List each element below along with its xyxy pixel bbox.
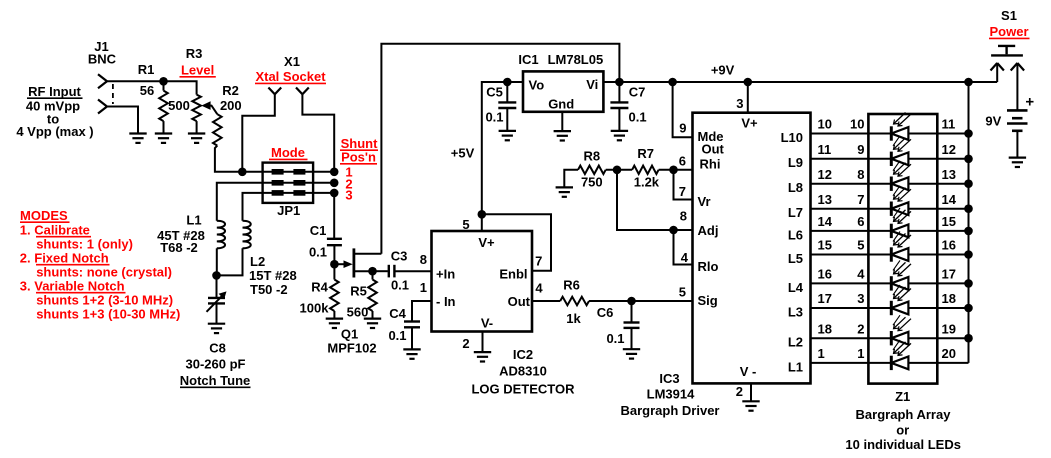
svg-text:C5: C5 <box>486 85 503 100</box>
svg-text:11: 11 <box>942 117 956 132</box>
svg-text:56: 56 <box>140 83 154 98</box>
connector J1 BNC <box>98 74 107 81</box>
node D junction <box>330 260 339 269</box>
svg-text:13: 13 <box>942 167 956 182</box>
ground R4 <box>326 318 343 320</box>
svg-text:10 individual LEDs: 10 individual LEDs <box>845 437 961 452</box>
svg-text:Power: Power <box>989 24 1028 39</box>
svg-text:Vi: Vi <box>586 77 598 92</box>
capacitor C7 0.1 <box>618 82 620 102</box>
svg-text:L5: L5 <box>788 251 803 266</box>
svg-text:shunts: 1 (only): shunts: 1 (only) <box>36 237 133 252</box>
capacitor C6 0.1 <box>631 301 633 323</box>
svg-text:V-: V- <box>481 316 493 331</box>
svg-text:V+: V+ <box>478 235 495 250</box>
svg-text:10: 10 <box>818 117 832 132</box>
svg-text:2. Fixed Notch: 2. Fixed Notch <box>20 251 109 266</box>
svg-text:0.1: 0.1 <box>391 278 409 293</box>
svg-text:2: 2 <box>736 384 743 399</box>
wire JP1 row2 to L1 <box>217 183 334 221</box>
node A junction <box>159 77 168 86</box>
svg-text:4 Vpp (max ): 4 Vpp (max ) <box>16 124 93 139</box>
capacitor C1 0.1 <box>333 193 335 239</box>
svg-text:C8: C8 <box>209 341 226 356</box>
ground J1 shield <box>129 132 146 134</box>
svg-text:7: 7 <box>857 192 864 207</box>
svg-text:R5: R5 <box>350 284 367 299</box>
svg-text:18: 18 <box>818 321 832 336</box>
ground R5 <box>364 318 381 320</box>
LED D4 <box>890 202 893 216</box>
svg-text:BNC: BNC <box>88 52 117 67</box>
svg-text:shunts 1+2 (3-10 MHz): shunts 1+2 (3-10 MHz) <box>36 293 173 308</box>
svg-text:L3: L3 <box>788 304 803 319</box>
ground IC1 <box>554 130 571 132</box>
svg-text:R3: R3 <box>186 46 203 61</box>
svg-text:IC2: IC2 <box>513 347 533 362</box>
svg-text:500: 500 <box>168 98 190 113</box>
svg-text:7: 7 <box>535 254 542 269</box>
wire node A to R3 top <box>164 81 197 94</box>
svg-text:Rlo: Rlo <box>698 259 719 274</box>
svg-text:T50 -2: T50 -2 <box>250 282 288 297</box>
svg-text:18: 18 <box>942 291 956 306</box>
ground IC3 <box>742 400 759 402</box>
crystal socket X1 <box>268 88 274 95</box>
LED row 5 pins 14/6/15 <box>811 230 869 232</box>
svg-text:15T #28: 15T #28 <box>249 268 297 283</box>
wire X1 right pin to shunt rail <box>302 94 334 172</box>
wire Q1 drain up and across to IC1 Vi <box>381 44 619 254</box>
connector JP1 <box>263 163 314 203</box>
svg-text:1: 1 <box>818 346 825 361</box>
wire R7 to pin 6 Rhi <box>659 169 693 171</box>
+5V node and wiring <box>482 82 508 214</box>
node B junction <box>238 168 247 177</box>
svg-text:16: 16 <box>942 238 956 253</box>
svg-text:12: 12 <box>818 167 832 182</box>
svg-text:17: 17 <box>818 291 832 306</box>
wire pin 3 V+ <box>747 82 749 113</box>
svg-text:- In: - In <box>436 294 456 309</box>
LED row 7 pins 16/4/17 <box>811 282 869 284</box>
variable capacitor C8 30-260 pF <box>216 275 218 298</box>
svg-text:4: 4 <box>681 250 689 265</box>
svg-text:MODES: MODES <box>20 208 68 223</box>
wire IC2 Out <box>532 300 560 302</box>
svg-text:Vo: Vo <box>529 78 545 93</box>
svg-text:L7: L7 <box>788 205 803 220</box>
svg-text:16: 16 <box>818 267 832 282</box>
svg-text:Z1: Z1 <box>895 389 910 404</box>
ground IC2 <box>474 351 491 353</box>
svg-text:R7: R7 <box>637 146 654 161</box>
svg-text:0.1: 0.1 <box>606 331 624 346</box>
svg-text:L1: L1 <box>788 359 803 374</box>
ground R8 <box>556 186 573 188</box>
anode rail from +9V <box>968 82 970 363</box>
wire node F to pin 8 Adj <box>617 170 693 230</box>
svg-text:RF Input: RF Input <box>28 84 81 99</box>
svg-text:shunts: none (crystal): shunts: none (crystal) <box>36 265 172 280</box>
wire V+ to Enbl pin 7 <box>482 214 551 270</box>
resistor R4 100k <box>333 264 335 279</box>
LED D10 <box>890 356 893 370</box>
svg-text:4: 4 <box>535 281 543 296</box>
svg-text:+: + <box>1025 94 1034 111</box>
ground C5 <box>499 130 516 132</box>
svg-text:10: 10 <box>850 117 864 132</box>
potentiometer R3 500 Level <box>192 95 201 122</box>
svg-text:R2: R2 <box>222 83 239 98</box>
capacitor C4 0.1 <box>412 301 432 322</box>
svg-text:V+: V+ <box>741 116 758 131</box>
svg-text:Xtal Socket: Xtal Socket <box>255 69 326 84</box>
switch S1 Power pushbutton <box>998 45 1015 47</box>
svg-text:12: 12 <box>942 142 956 157</box>
svg-text:L4: L4 <box>788 280 804 295</box>
svg-text:100k: 100k <box>300 301 330 316</box>
ground R3 <box>188 132 205 134</box>
svg-text:+5V: +5V <box>451 146 475 161</box>
battery 9V <box>1007 109 1028 112</box>
svg-text:AD8310: AD8310 <box>499 364 547 379</box>
wire pin 4 Rlo <box>674 230 693 265</box>
svg-text:C1: C1 <box>310 223 327 238</box>
svg-text:L9: L9 <box>788 155 803 170</box>
svg-text:Mode: Mode <box>271 145 305 160</box>
svg-text:LM3914: LM3914 <box>647 387 695 402</box>
svg-text:R8: R8 <box>583 149 600 164</box>
svg-text:0.1: 0.1 <box>388 328 406 343</box>
inductor L2 15T #28 T50-2 <box>243 221 251 249</box>
IC2 pin 2 ground <box>482 332 484 352</box>
op-amp IC2 AD8310 log detector <box>432 231 533 332</box>
svg-text:X1: X1 <box>284 54 300 69</box>
svg-text:LOG DETECTOR: LOG DETECTOR <box>471 382 575 397</box>
svg-text:Gnd: Gnd <box>548 97 574 112</box>
resistor R7 1.2k <box>632 166 659 174</box>
svg-text:5: 5 <box>857 238 864 253</box>
wire IC1 Vi to C7 node <box>603 81 619 83</box>
svg-text:T68 -2: T68 -2 <box>160 240 198 255</box>
svg-text:1.2k: 1.2k <box>634 175 660 190</box>
ground battery <box>1009 157 1026 159</box>
svg-text:Enbl: Enbl <box>499 267 527 282</box>
svg-text:+9V: +9V <box>711 63 735 78</box>
svg-text:Out: Out <box>508 294 531 309</box>
svg-text:L10: L10 <box>781 130 803 145</box>
node C junction <box>212 271 221 280</box>
ground C4 <box>403 348 420 350</box>
svg-text:Pos'n: Pos'n <box>341 150 376 165</box>
resistor R6 1k <box>560 297 589 305</box>
svg-text:1k: 1k <box>566 311 581 326</box>
svg-text:R6: R6 <box>563 278 580 293</box>
svg-text:Bargraph Array: Bargraph Array <box>856 407 952 422</box>
wire R6 to pin 5 Sig <box>589 300 693 302</box>
svg-text:2: 2 <box>857 321 864 336</box>
svg-text:3: 3 <box>857 291 864 306</box>
capacitor C5 0.1 <box>506 82 508 102</box>
LED row 2 pins 11/9/12 <box>811 158 869 160</box>
LED row 1 pins 10/10/11 <box>811 133 869 135</box>
svg-text:9: 9 <box>857 142 864 157</box>
LED D7 <box>890 276 893 290</box>
svg-text:LM78L05: LM78L05 <box>548 52 604 67</box>
svg-text:C4: C4 <box>389 306 406 321</box>
LED D1 <box>890 126 893 140</box>
LED D8 <box>890 301 893 315</box>
svg-text:0.1: 0.1 <box>485 110 503 125</box>
svg-text:3: 3 <box>736 96 743 111</box>
resistor R1 56 <box>163 81 165 90</box>
svg-text:MPF102: MPF102 <box>327 341 376 356</box>
svg-text:3. Variable Notch: 3. Variable Notch <box>20 279 125 294</box>
svg-text:R4: R4 <box>311 280 328 295</box>
svg-text:5: 5 <box>462 217 469 232</box>
IC1 Gnd pin ground <box>561 112 563 131</box>
svg-text:8: 8 <box>857 167 864 182</box>
svg-text:C7: C7 <box>629 85 646 100</box>
svg-text:3: 3 <box>345 188 352 203</box>
svg-text:8: 8 <box>420 252 427 267</box>
svg-text:200: 200 <box>220 98 242 113</box>
svg-text:or: or <box>896 423 909 438</box>
svg-text:0.1: 0.1 <box>309 245 327 260</box>
svg-text:L1: L1 <box>186 213 201 228</box>
svg-text:JP1: JP1 <box>277 203 300 218</box>
svg-text:L2: L2 <box>250 254 265 269</box>
wire J1 center to node A <box>107 80 164 82</box>
+9V rail <box>619 81 997 83</box>
svg-text:13: 13 <box>818 192 832 207</box>
svg-text:6: 6 <box>857 214 864 229</box>
capacitor C3 0.1 <box>373 270 388 272</box>
ground R1 <box>155 132 172 134</box>
svg-text:Out: Out <box>702 142 725 157</box>
svg-text:4: 4 <box>857 267 865 282</box>
svg-text:20: 20 <box>942 346 956 361</box>
svg-text:Level: Level <box>181 63 214 78</box>
svg-text:shunts 1+3 (10-30 MHz): shunts 1+3 (10-30 MHz) <box>36 307 180 322</box>
svg-text:Sig: Sig <box>698 293 718 308</box>
ground C7 <box>611 130 628 132</box>
LED row 4 pins 13/7/14 <box>811 208 869 210</box>
R3 wiper arrow <box>201 101 210 110</box>
wire pin 7 Vr <box>674 170 693 200</box>
svg-text:Notch Tune: Notch Tune <box>180 373 251 388</box>
svg-text:L6: L6 <box>788 227 803 242</box>
node E junction <box>368 267 377 276</box>
svg-text:Q1: Q1 <box>341 327 358 342</box>
svg-text:19: 19 <box>942 321 956 336</box>
regulator IC1 LM78L05 <box>523 71 603 111</box>
svg-text:0.1: 0.1 <box>629 110 647 125</box>
svg-text:9: 9 <box>679 121 686 136</box>
LED row 3 pins 12/8/13 <box>811 183 869 185</box>
LED D6 <box>890 247 893 261</box>
svg-text:6: 6 <box>679 154 686 169</box>
resistor R5 560 <box>372 271 374 279</box>
svg-text:C6: C6 <box>597 305 614 320</box>
driver IC3 LM3914 <box>693 113 811 384</box>
shunt rail junctions <box>330 168 339 177</box>
node F junction <box>606 169 632 171</box>
svg-text:L8: L8 <box>788 180 803 195</box>
svg-text:7: 7 <box>679 184 686 199</box>
svg-text:Adj: Adj <box>698 223 719 238</box>
ground C6 <box>623 348 640 350</box>
svg-text:17: 17 <box>942 267 956 282</box>
svg-text:14: 14 <box>942 192 957 207</box>
svg-text:C3: C3 <box>391 249 408 264</box>
svg-text:9V: 9V <box>985 114 1001 129</box>
transistor Q1 MPF102 JFET <box>334 263 345 265</box>
IC3 pin 2 ground <box>750 383 752 401</box>
svg-text:V -: V - <box>740 364 757 379</box>
ground C8 <box>208 323 225 325</box>
wire JP1 row1 <box>242 171 334 173</box>
wire J1 shield to ground <box>107 107 138 134</box>
LED D2 <box>890 152 893 166</box>
svg-text:1. Calibrate: 1. Calibrate <box>20 223 90 238</box>
svg-text:1: 1 <box>857 346 864 361</box>
LED row 9 pins 18/2/19 <box>811 337 869 339</box>
svg-text:Vr: Vr <box>698 194 711 209</box>
bargraph Z1 box <box>868 114 937 384</box>
svg-text:+In: +In <box>436 267 455 282</box>
svg-text:5: 5 <box>679 285 686 300</box>
svg-text:15: 15 <box>942 214 956 229</box>
svg-text:IC3: IC3 <box>659 371 679 386</box>
LED D3 <box>890 177 893 191</box>
svg-text:11: 11 <box>818 142 832 157</box>
svg-text:2: 2 <box>462 336 469 351</box>
svg-text:560: 560 <box>347 305 369 320</box>
LED D5 <box>890 224 893 238</box>
svg-text:30-260 pF: 30-260 pF <box>186 357 246 372</box>
LED row 10 pins 1/1/20 <box>811 362 869 364</box>
svg-text:8: 8 <box>680 209 687 224</box>
LED row 8 pins 17/3/18 <box>811 307 869 309</box>
svg-text:750: 750 <box>581 175 603 190</box>
inductor L1 45T #28 T68-2 <box>217 221 225 249</box>
wire IC1 Vo to C5 node <box>507 81 523 83</box>
svg-text:S1: S1 <box>1001 8 1017 23</box>
svg-text:IC1: IC1 <box>518 52 538 67</box>
svg-text:15: 15 <box>818 238 832 253</box>
wire JP1 row3 to L2 <box>243 193 335 221</box>
svg-text:14: 14 <box>818 214 833 229</box>
resistor R8 750 <box>564 170 578 187</box>
wire X1 left pin to node B <box>242 94 274 172</box>
svg-text:1: 1 <box>420 280 427 295</box>
svg-text:Rhi: Rhi <box>700 157 721 172</box>
wire pin 9 Mde <box>673 82 693 137</box>
LED row 6 pins 15/5/16 <box>811 254 869 256</box>
svg-text:R1: R1 <box>138 62 155 77</box>
svg-text:Bargraph Driver: Bargraph Driver <box>621 403 720 418</box>
resistor R2 200 <box>213 114 222 145</box>
svg-text:L2: L2 <box>788 335 803 350</box>
LED D9 <box>890 331 893 345</box>
